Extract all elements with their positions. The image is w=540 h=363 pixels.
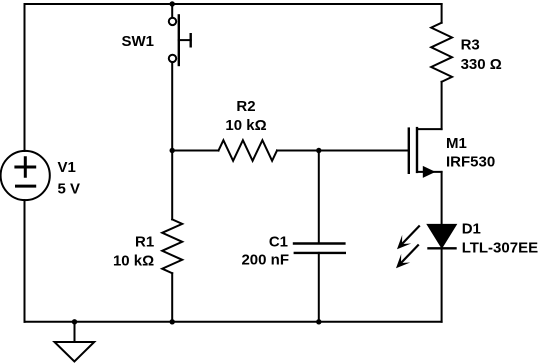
wire top rail to SW1 terminal	[171, 4, 173, 18]
resistor R3	[431, 23, 452, 82]
resistor R1	[162, 219, 182, 273]
node A junction (SW1 / R1 / R2)	[170, 148, 175, 153]
node C1 bottom rail junction	[316, 319, 321, 324]
D1 light emission arrow lower	[396, 245, 418, 268]
wire top rail from V1 to R3	[25, 3, 442, 5]
wire node A to R2	[172, 150, 218, 152]
node ground junction	[72, 319, 77, 324]
svg-text:C1: C1	[269, 234, 288, 251]
wire node B to M1 gate	[319, 150, 409, 152]
capacitor C1	[294, 244, 345, 253]
svg-text:D1: D1	[462, 220, 481, 237]
wire bottom rail	[25, 321, 442, 323]
svg-text:SW1: SW1	[121, 33, 154, 50]
wire node B to C1 top plate	[318, 151, 320, 244]
wire R1 to bottom rail	[171, 273, 173, 322]
svg-text:M1: M1	[446, 135, 467, 152]
svg-text:LTL-307EE: LTL-307EE	[462, 240, 538, 257]
voltage source V1	[1, 151, 50, 200]
svg-text:10 kΩ: 10 kΩ	[225, 117, 266, 134]
wire SW1 lower terminal to node A	[171, 62, 173, 150]
wire left rail upper (top rail to V1 plus terminal)	[24, 4, 26, 151]
svg-text:10 kΩ: 10 kΩ	[113, 252, 154, 269]
D1 light emission arrow upper	[397, 226, 419, 249]
svg-text:330 Ω: 330 Ω	[461, 56, 502, 73]
wire R3 top (top rail corner to R3)	[441, 4, 443, 23]
node B junction (R2 / C1 / gate)	[316, 148, 321, 153]
switch SW1	[169, 15, 191, 65]
wire R2 to node B	[277, 150, 319, 152]
wire D1 cathode to bottom rail	[441, 248, 443, 321]
svg-text:R3: R3	[461, 37, 480, 54]
wire M1 source to D1 anode	[441, 172, 443, 225]
svg-text:200 nF: 200 nF	[241, 252, 289, 269]
wire node A to R1	[171, 151, 173, 220]
svg-text:IRF530: IRF530	[446, 154, 495, 171]
svg-text:R2: R2	[236, 98, 255, 115]
resistor R2	[219, 140, 278, 161]
svg-text:V1: V1	[58, 159, 76, 176]
wire C1 bottom plate to bottom rail	[318, 253, 320, 322]
node R1 bottom rail junction	[170, 319, 175, 324]
node junction top rail / SW1	[170, 1, 175, 6]
svg-text:5 V: 5 V	[58, 180, 81, 197]
ground	[55, 322, 95, 362]
svg-text:R1: R1	[135, 233, 154, 250]
wire left rail lower (V1 minus terminal to bottom rail)	[24, 200, 26, 322]
transistor M1 (N-MOSFET)	[409, 128, 442, 178]
LED D1	[428, 225, 456, 249]
wire R3 to M1 drain	[441, 82, 443, 129]
